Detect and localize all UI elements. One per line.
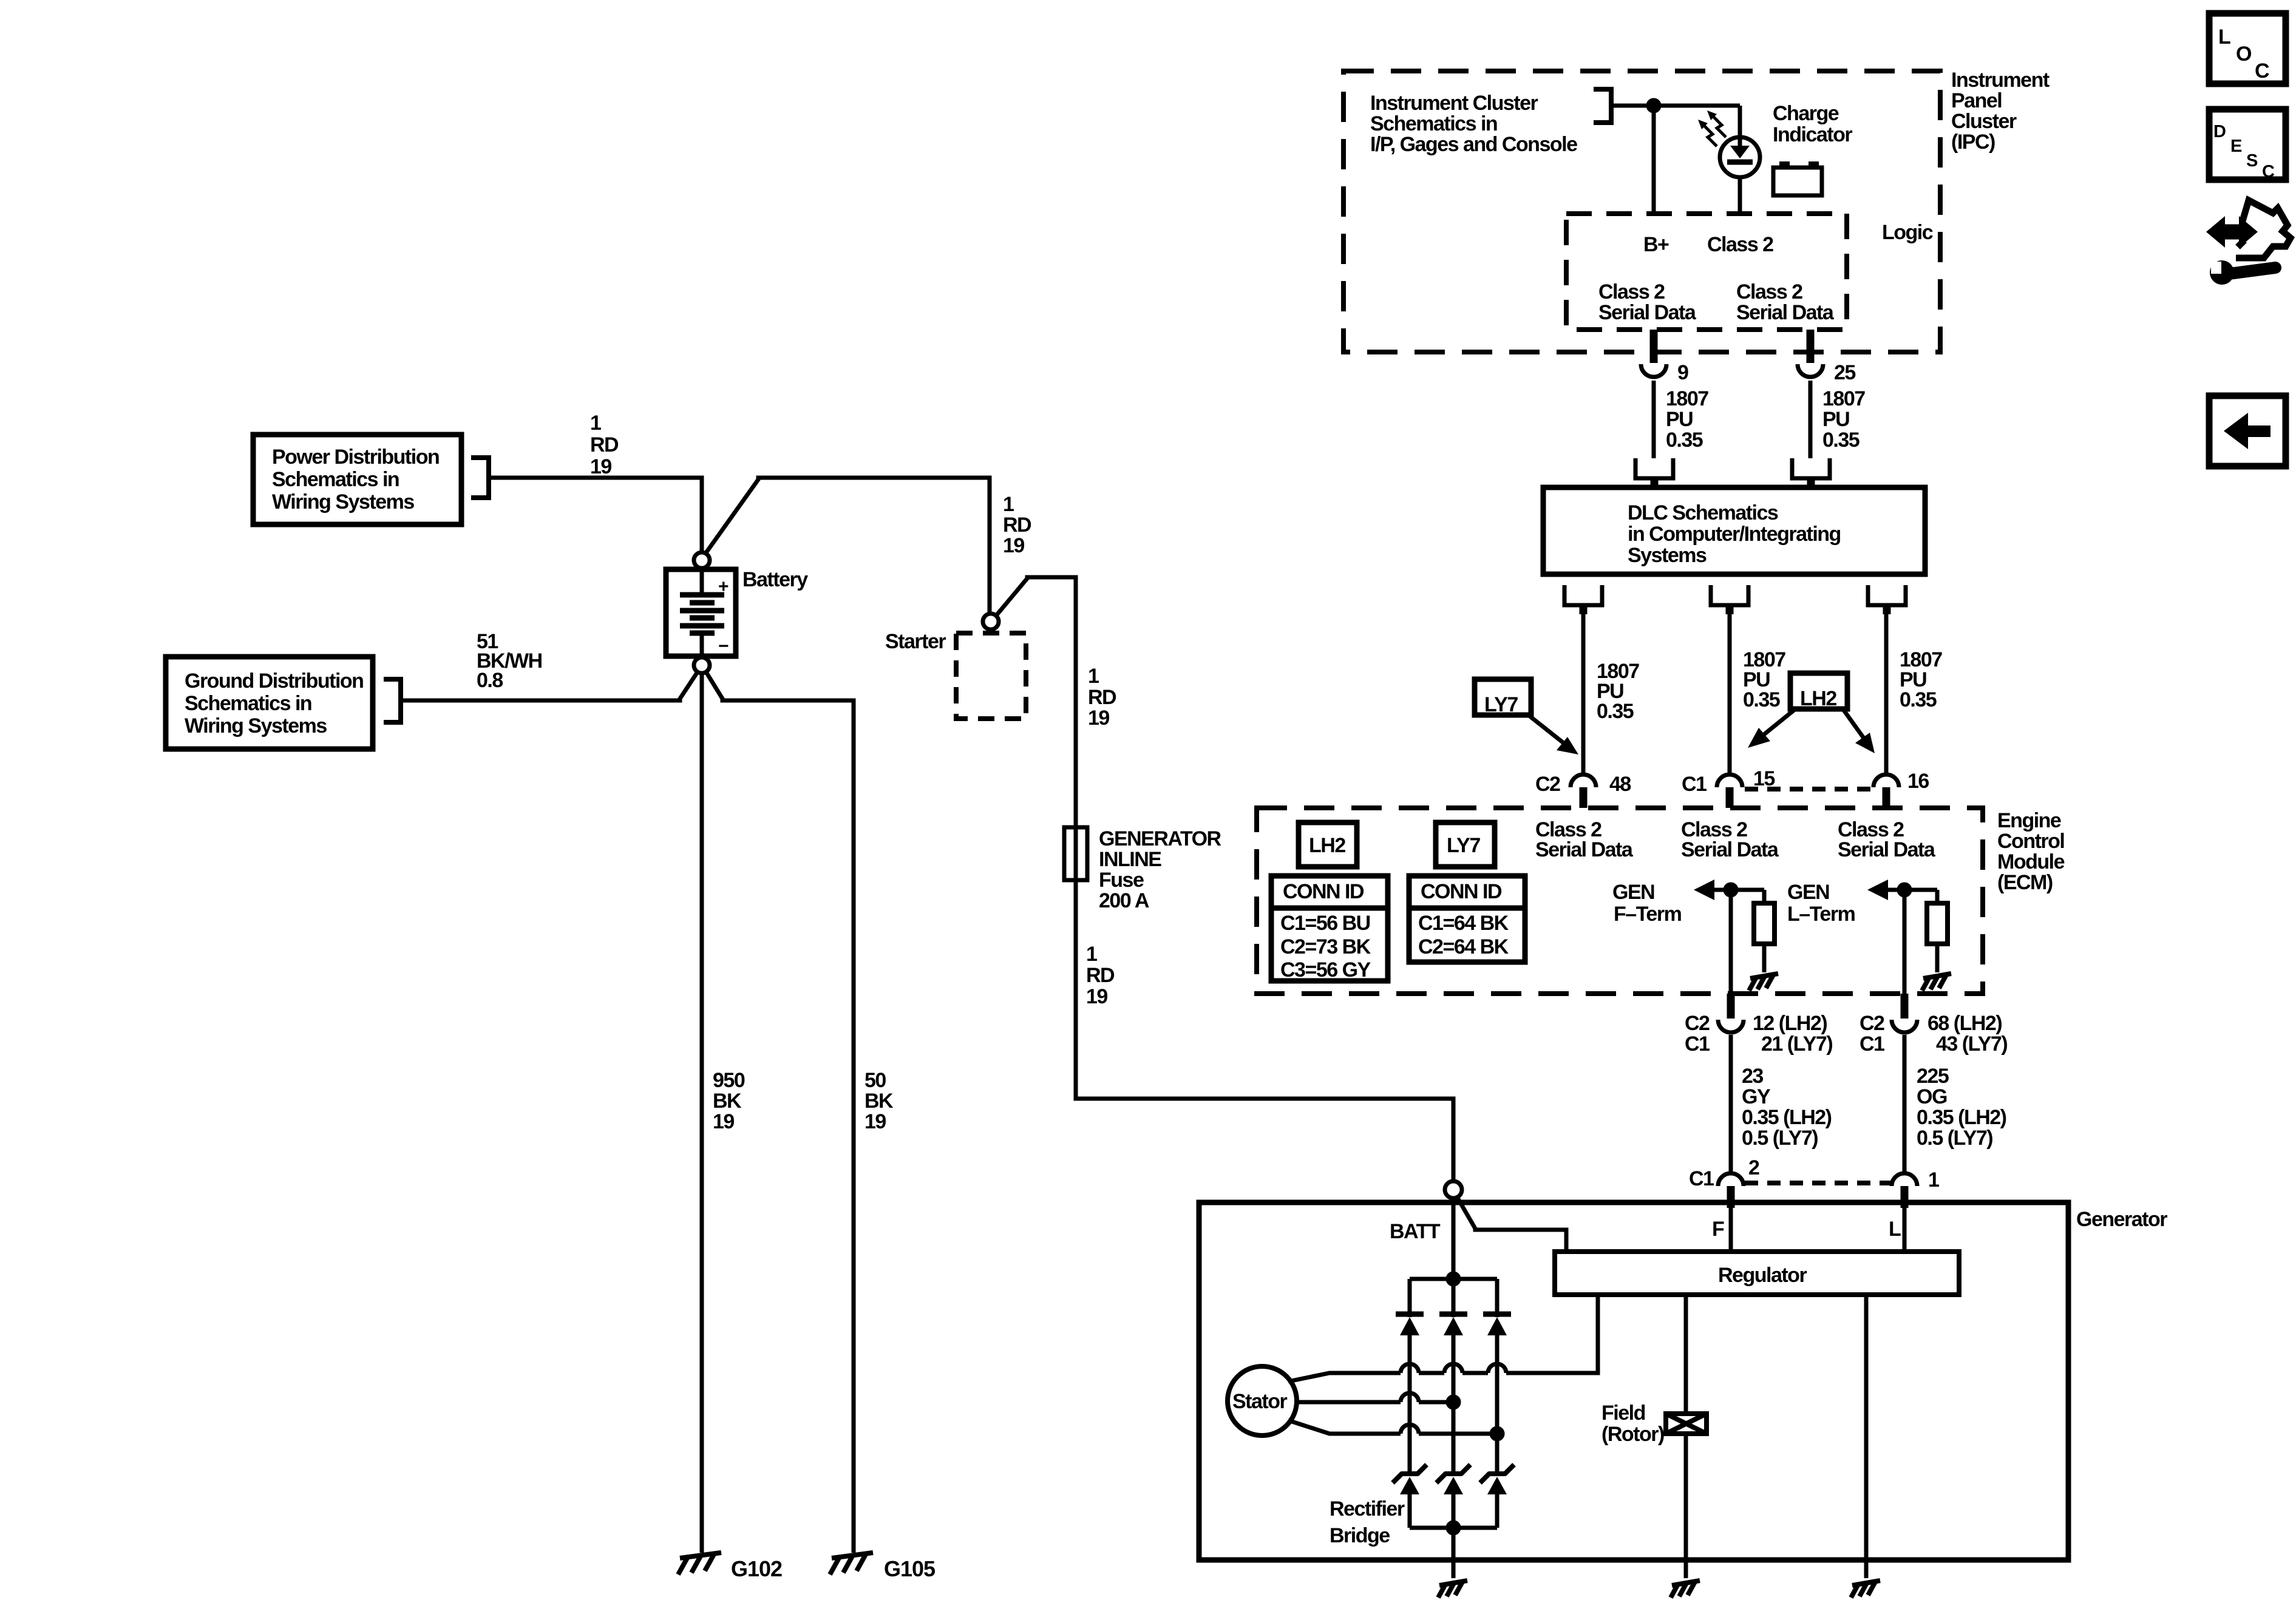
label wire 950 BK 19 (713, 1069, 745, 1133)
svg-text:Generator: Generator (2076, 1208, 2167, 1231)
svg-text:0.8: 0.8 (477, 669, 503, 692)
svg-text:C2=73 BK: C2=73 BK (1280, 935, 1371, 958)
callout box LH2 with two arrows (1748, 673, 1875, 753)
svg-text:E: E (2230, 137, 2242, 156)
svg-text:C2=64 BK: C2=64 BK (1418, 935, 1509, 958)
wire bracket to charge indicator (1611, 104, 1740, 108)
battery B1 (666, 569, 736, 656)
svg-text:Instrument: Instrument (1951, 69, 2050, 92)
wire battery negative branch to G105 (50 BK 19) (706, 672, 854, 1553)
svg-text:1: 1 (1086, 943, 1097, 966)
svg-text:0.35: 0.35 (1666, 429, 1703, 452)
connector cup C2-68 (1892, 1020, 1917, 1032)
label Rectifier Bridge (1330, 1497, 1405, 1547)
connector bracket inside IPC (1594, 89, 1611, 123)
svg-text:Schematics in: Schematics in (185, 692, 311, 715)
svg-text:GENERATOR: GENERATOR (1099, 827, 1221, 850)
harness connector into DLC (left) (1635, 458, 1673, 487)
connector C1 pin 15 into ECM (1717, 775, 1742, 808)
svg-text:GEN: GEN (1612, 881, 1654, 904)
svg-text:GY: GY (1742, 1085, 1771, 1108)
svg-text:BK: BK (864, 1090, 894, 1113)
svg-text:Cluster: Cluster (1951, 110, 2017, 133)
label wire 1807 PU 0.35 (right) (1822, 387, 1865, 452)
node battery positive terminal (694, 552, 710, 568)
svg-text:Class 2: Class 2 (1707, 233, 1773, 256)
svg-text:C1: C1 (1689, 1167, 1714, 1190)
node battery negative terminal (694, 657, 710, 673)
svg-text:21 (LY7): 21 (LY7) (1761, 1032, 1832, 1056)
svg-text:C2: C2 (1860, 1012, 1884, 1035)
wire battery positive diagonal up to starter feed (705, 478, 990, 614)
svg-text:19: 19 (1086, 985, 1107, 1008)
svg-text:B+: B+ (1643, 233, 1669, 256)
svg-text:G105: G105 (884, 1556, 936, 1581)
svg-text:Rectifier: Rectifier (1330, 1497, 1405, 1520)
svg-text:1807: 1807 (1822, 387, 1865, 410)
svg-text:Wiring Systems: Wiring Systems (272, 490, 414, 514)
LED light arrows (1698, 110, 1726, 146)
svg-text:0.35: 0.35 (1743, 688, 1780, 711)
svg-text:Serial Data: Serial Data (1681, 838, 1779, 861)
wire LED to logic box Class 2 (1738, 177, 1742, 214)
connector C1 pin 2 into generator (1718, 1173, 1744, 1208)
svg-text:RD: RD (1086, 964, 1115, 987)
connector C2 pin 48 into ECM (1571, 775, 1596, 808)
box Ground Distribution Schematics in Wiring Systems (166, 657, 373, 749)
svg-text:950: 950 (713, 1069, 745, 1092)
svg-text:48: 48 (1609, 773, 1631, 796)
svg-text:19: 19 (590, 455, 611, 478)
label wire 1 RD 19 (battery to starter) (1003, 493, 1031, 557)
wire BATT down to rectifier bus (1452, 1198, 1456, 1279)
svg-text:19: 19 (713, 1110, 734, 1133)
label Engine Control Module (ECM) (1997, 809, 2065, 894)
connector pin 1 into generator (1892, 1173, 1917, 1208)
svg-text:L: L (1889, 1218, 1901, 1241)
wire 23 GY to generator F (1729, 1035, 1733, 1172)
svg-text:Indicator: Indicator (1773, 123, 1852, 146)
label wire 1807 PU 0.35 (left) (1666, 387, 1708, 452)
svg-text:Class 2: Class 2 (1598, 280, 1665, 303)
label Class 2 Serial Data (right) (1736, 280, 1835, 324)
label wire 1 RD 19 (power feed) (590, 412, 619, 478)
label GENERATOR INLINE Fuse 200 A (1099, 827, 1221, 912)
wire regulator to field (1684, 1295, 1688, 1414)
label Class 2 Serial Data (ECM left) (1535, 818, 1634, 861)
svg-text:Charge: Charge (1773, 102, 1839, 125)
svg-text:0.35 (LH2): 0.35 (LH2) (1742, 1106, 1832, 1129)
stator phase wire middle (to leg 2) (1297, 1393, 1453, 1402)
icon LOC button (2209, 13, 2286, 84)
label Class 2 Serial Data (ECM right) (1838, 818, 1936, 861)
svg-text:S: S (2246, 151, 2258, 171)
svg-text:Starter: Starter (885, 630, 946, 653)
svg-text:Fuse: Fuse (1099, 869, 1144, 892)
label GEN F-Term (1612, 881, 1682, 926)
svg-text:(IPC): (IPC) (1951, 131, 1995, 154)
svg-text:25: 25 (1834, 361, 1855, 384)
wire DLC to ECM C2-48 (1581, 614, 1586, 773)
svg-text:D: D (2213, 122, 2226, 141)
svg-text:(Rotor): (Rotor) (1601, 1423, 1664, 1446)
DLC bottom connector (middle) (1711, 585, 1748, 614)
label Class 2 Serial Data (left) (1598, 280, 1697, 324)
svg-text:C1=64 BK: C1=64 BK (1418, 912, 1509, 935)
pin stub ECM C2-12 (1727, 994, 1735, 1019)
svg-text:0.35: 0.35 (1900, 688, 1937, 711)
DLC bottom connector (left) (1564, 585, 1602, 614)
junction node B+ tap (1648, 100, 1659, 111)
label wire 51 BK/WH 0.8 (477, 630, 542, 692)
svg-text:C1: C1 (1682, 773, 1707, 796)
field (rotor) winding symbol (1666, 1414, 1707, 1434)
svg-text:INLINE: INLINE (1099, 848, 1161, 871)
wire 1807 PU 0.35 (pin 25 to DLC) (1809, 381, 1813, 458)
svg-text:−: − (718, 636, 729, 656)
IPC dashed box (Instrument Panel Cluster) (1343, 71, 1940, 352)
label C2 / C1 (right pin pair) (1860, 1012, 1884, 1056)
rectifier leg 1 upper with diode (1396, 1279, 1424, 1471)
connector cup IPC pin 9 (1641, 364, 1666, 377)
pin stub ECM C2-68 (1901, 994, 1909, 1019)
svg-text:Control: Control (1997, 830, 2064, 853)
svg-text:CONN ID: CONN ID (1421, 880, 1502, 903)
svg-text:Battery: Battery (742, 568, 808, 591)
svg-text:RD: RD (1088, 686, 1116, 709)
charge indicator LED (1720, 137, 1760, 177)
GEN L-Term arrow (1867, 880, 1937, 900)
ground generator regulator (1851, 1581, 1880, 1598)
box Power Distribution Schematics in Wiring Systems (253, 435, 461, 524)
svg-text:LH2: LH2 (1309, 834, 1345, 857)
zener diode leg 2 (1436, 1465, 1470, 1528)
svg-text:1: 1 (1088, 665, 1099, 688)
svg-text:C: C (2255, 59, 2270, 83)
svg-text:Wiring Systems: Wiring Systems (185, 714, 327, 737)
svg-text:I/P, Gages and Console: I/P, Gages and Console (1370, 133, 1577, 156)
svg-text:23: 23 (1742, 1065, 1763, 1088)
label pin 68 (LH2) / 43 (LY7) (1927, 1012, 2007, 1056)
svg-text:L–Term: L–Term (1787, 903, 1855, 926)
regulator box (1555, 1252, 1959, 1295)
wire field to chassis ground (1684, 1434, 1688, 1578)
stator (1228, 1366, 1297, 1436)
DLC bottom connector (right) (1868, 585, 1906, 614)
svg-text:1: 1 (1928, 1168, 1939, 1192)
svg-text:225: 225 (1917, 1065, 1949, 1088)
node starter terminal (983, 614, 999, 629)
svg-text:1807: 1807 (1666, 387, 1708, 410)
svg-text:PU: PU (1822, 408, 1849, 431)
svg-text:G102: G102 (731, 1556, 782, 1581)
tag box LY7 inside ECM (1436, 822, 1495, 867)
connector pin 16 into ECM (1873, 775, 1899, 808)
connector pair dashed line pins 15-16 (1745, 787, 1872, 792)
svg-text:0.35 (LH2): 0.35 (LH2) (1917, 1106, 2006, 1129)
svg-text:BATT: BATT (1390, 1220, 1441, 1243)
resistor ECM F-term pull (1754, 890, 1775, 972)
svg-text:LH2: LH2 (1800, 687, 1836, 710)
svg-text:F: F (1712, 1218, 1724, 1241)
wire F-term to pin C2-12 (1729, 890, 1733, 994)
svg-text:0.5 (LY7): 0.5 (LY7) (1742, 1127, 1818, 1150)
label wire 50 BK 19 (864, 1069, 894, 1133)
wire rectifier bottom bus (1410, 1526, 1497, 1530)
junction node rectifier top bus (1448, 1273, 1459, 1284)
label wire 225 OG 0.35 (LH2) 0.5 (LY7) (1917, 1065, 2006, 1150)
wire 1 RD 19 from power distribution to battery positive (489, 478, 702, 552)
svg-text:19: 19 (1088, 707, 1109, 730)
node generator BATT terminal (1445, 1181, 1462, 1198)
svg-text:Class 2: Class 2 (1736, 280, 1802, 303)
label wire 1 RD 19 (below fuse) (1086, 943, 1115, 1008)
junction node F-term tap (1725, 884, 1736, 895)
svg-text:Regulator: Regulator (1718, 1264, 1807, 1287)
svg-text:LY7: LY7 (1484, 693, 1518, 716)
svg-text:Systems: Systems (1628, 544, 1707, 567)
wire down into charge indicator LED (1738, 106, 1742, 146)
icon DESC button (2209, 109, 2286, 181)
label wire 1 RD 19 (starter to fuse) (1088, 665, 1116, 730)
svg-text:Panel: Panel (1951, 89, 2002, 112)
icon back arrow button (2209, 396, 2286, 466)
resistor ECM L-term pull (1927, 890, 1948, 972)
wire B+ down to logic box (1652, 106, 1656, 214)
svg-text:19: 19 (864, 1110, 886, 1133)
connector cup IPC pin 25 (1798, 364, 1823, 377)
svg-text:Serial Data: Serial Data (1535, 838, 1634, 861)
svg-text:Ground Distribution: Ground Distribution (185, 670, 363, 693)
stator phase wire bottom (to leg 3) (1288, 1420, 1497, 1434)
label wire 1807 PU 0.35 (to pin 48) (1597, 660, 1639, 723)
svg-text:200 A: 200 A (1099, 889, 1149, 912)
wire battery negative to ground distribution (51 BK/WH 0.8) (403, 672, 698, 700)
svg-text:Schematics in: Schematics in (272, 468, 399, 491)
ECM dashed box (Engine Control Module) (1257, 808, 1983, 994)
wire L-term to pin C2-68 (1903, 890, 1907, 994)
label Instrument Panel Cluster (IPC) (1951, 69, 2050, 154)
svg-text:12 (LH2): 12 (LH2) (1753, 1012, 1827, 1035)
svg-text:50: 50 (864, 1069, 886, 1092)
svg-text:O: O (2236, 42, 2252, 66)
svg-text:C1=56 BU: C1=56 BU (1280, 912, 1370, 935)
ground internal ECM (F) (1749, 974, 1778, 991)
connector bracket on ground distribution box (384, 679, 401, 722)
pin stub IPC pin 9 (1650, 330, 1658, 363)
wire L into regulator (1903, 1208, 1907, 1252)
svg-text:0.35: 0.35 (1822, 429, 1860, 452)
wire rectifier to chassis ground (1452, 1528, 1456, 1578)
wire 1807 PU 0.35 (pin 9 to DLC) (1652, 381, 1656, 458)
svg-text:Schematics in: Schematics in (1370, 112, 1497, 135)
svg-text:RD: RD (590, 433, 619, 456)
pin stub IPC pin 25 (1807, 330, 1815, 363)
svg-text:GEN: GEN (1787, 881, 1829, 904)
svg-text:C2: C2 (1535, 773, 1560, 796)
harness connector into DLC (right) (1792, 458, 1830, 487)
svg-text:Engine: Engine (1997, 809, 2061, 832)
svg-text:RD: RD (1003, 514, 1031, 537)
fuse GENERATOR INLINE 200 A (1064, 827, 1087, 880)
wire regulator right to chassis ground (1864, 1295, 1869, 1578)
label Field (Rotor) (1601, 1402, 1664, 1446)
wire fuse to generator BATT terminal (1076, 880, 1453, 1181)
svg-text:Logic: Logic (1882, 221, 1933, 244)
svg-text:0.5 (LY7): 0.5 (LY7) (1917, 1127, 1992, 1150)
ground internal ECM (L) (1922, 974, 1951, 991)
label wire 1807 PU 0.35 (to pin 15) (1743, 648, 1785, 711)
wire DLC to ECM C1-15 (1728, 614, 1732, 773)
junction node L-term tap (1899, 884, 1910, 895)
svg-text:2: 2 (1748, 1156, 1759, 1179)
svg-text:Bridge: Bridge (1330, 1524, 1390, 1547)
svg-text:CONN ID: CONN ID (1283, 880, 1364, 903)
callout box LY7 with arrow (1475, 679, 1578, 754)
rectifier leg 2 upper with diode (1439, 1279, 1467, 1471)
svg-text:F–Term: F–Term (1614, 903, 1682, 926)
connector bracket on power distribution box (471, 458, 489, 498)
wire F into regulator (1729, 1208, 1733, 1252)
svg-text:DLC Schematics: DLC Schematics (1628, 501, 1778, 524)
svg-text:C1: C1 (1860, 1032, 1884, 1056)
svg-text:Stator: Stator (1232, 1390, 1288, 1413)
starter dashed box (956, 633, 1026, 719)
svg-text:Serial Data: Serial Data (1838, 838, 1936, 861)
ground G105 (830, 1553, 873, 1575)
zener diode leg 1 (1393, 1465, 1427, 1528)
svg-text:1: 1 (590, 412, 601, 435)
svg-text:+: + (718, 577, 729, 597)
svg-text:L: L (2218, 25, 2231, 49)
generator box (1199, 1202, 2068, 1560)
svg-text:OG: OG (1917, 1085, 1947, 1108)
svg-text:C1: C1 (1685, 1032, 1710, 1056)
label pin 12 (LH2) / 21 (LY7) (1753, 1012, 1832, 1056)
svg-text:43 (LY7): 43 (LY7) (1936, 1032, 2007, 1056)
svg-text:19: 19 (1003, 534, 1024, 557)
svg-text:Field: Field (1601, 1402, 1645, 1425)
rectifier leg 3 upper with diode (1483, 1279, 1511, 1471)
svg-text:PU: PU (1666, 408, 1693, 431)
wire 225 OG to generator L (1903, 1035, 1907, 1172)
svg-text:LY7: LY7 (1447, 834, 1480, 857)
svg-text:in Computer/Integrating: in Computer/Integrating (1628, 523, 1841, 546)
logic dashed box (1566, 214, 1847, 330)
label wire 1807 PU 0.35 (to pin 16) (1900, 648, 1942, 711)
svg-text:C: C (2262, 162, 2275, 181)
wire battery negative straight down to G102 (950 BK 19) (700, 673, 704, 1553)
svg-text:Serial Data: Serial Data (1598, 301, 1697, 324)
svg-text:Power Distribution: Power Distribution (272, 446, 439, 469)
connector cup C2-12 (1718, 1020, 1744, 1032)
svg-text:1: 1 (1003, 493, 1014, 516)
zener diode leg 3 (1480, 1465, 1514, 1528)
svg-text:Instrument Cluster: Instrument Cluster (1370, 92, 1538, 115)
icon repair action (hand with wrench) (2206, 200, 2291, 285)
svg-text:Serial Data: Serial Data (1736, 301, 1835, 324)
table CONN ID (LY7) (1409, 876, 1525, 962)
stator phase wire top (to regulator sense) (1288, 1295, 1598, 1381)
label wire 23 GY 0.35 (LH2) 0.5 (LY7) (1742, 1065, 1832, 1150)
wire rectifier top bus (1410, 1277, 1497, 1281)
wire DLC to ECM pin 16 (1884, 614, 1889, 773)
label Instrument Cluster Schematics in I/P, Gages and Console (1370, 92, 1577, 156)
junction node rectifier bottom bus (1448, 1522, 1459, 1533)
junction node phase 3 to leg 3 (1492, 1428, 1503, 1439)
GEN F-Term arrow (1694, 880, 1764, 900)
svg-text:C2: C2 (1685, 1012, 1710, 1035)
svg-text:68 (LH2): 68 (LH2) (1927, 1012, 2002, 1035)
label Class 2 Serial Data (ECM middle) (1681, 818, 1779, 861)
ground generator field (1671, 1581, 1700, 1598)
ground G102 (678, 1553, 721, 1575)
box DLC Schematics in Computer/Integrating Systems (1543, 487, 1925, 574)
wire starter to generator inline fuse (1 RD 19) (996, 577, 1076, 886)
svg-text:16: 16 (1907, 770, 1929, 793)
battery icon in IPC (1773, 161, 1822, 195)
tag box LH2 inside ECM (1299, 822, 1357, 867)
table CONN ID (LH2) (1271, 876, 1388, 981)
svg-text:C3=56 GY: C3=56 GY (1280, 958, 1371, 981)
wire BATT to regulator (1457, 1197, 1566, 1252)
label Charge Indicator (1773, 102, 1852, 146)
svg-text:BK: BK (713, 1090, 742, 1113)
svg-text:(ECM): (ECM) (1997, 871, 2053, 894)
ground generator rectifier (1438, 1581, 1467, 1598)
svg-text:Module: Module (1997, 850, 2065, 873)
label C2 / C1 (left pin pair) (1685, 1012, 1710, 1056)
label GEN L-Term (1787, 881, 1855, 926)
svg-text:9: 9 (1677, 361, 1688, 384)
connector pair dashed line pins 2-1 (1745, 1181, 1890, 1185)
svg-text:0.35: 0.35 (1597, 700, 1634, 723)
junction node phase 2 to leg 2 (1448, 1397, 1459, 1408)
